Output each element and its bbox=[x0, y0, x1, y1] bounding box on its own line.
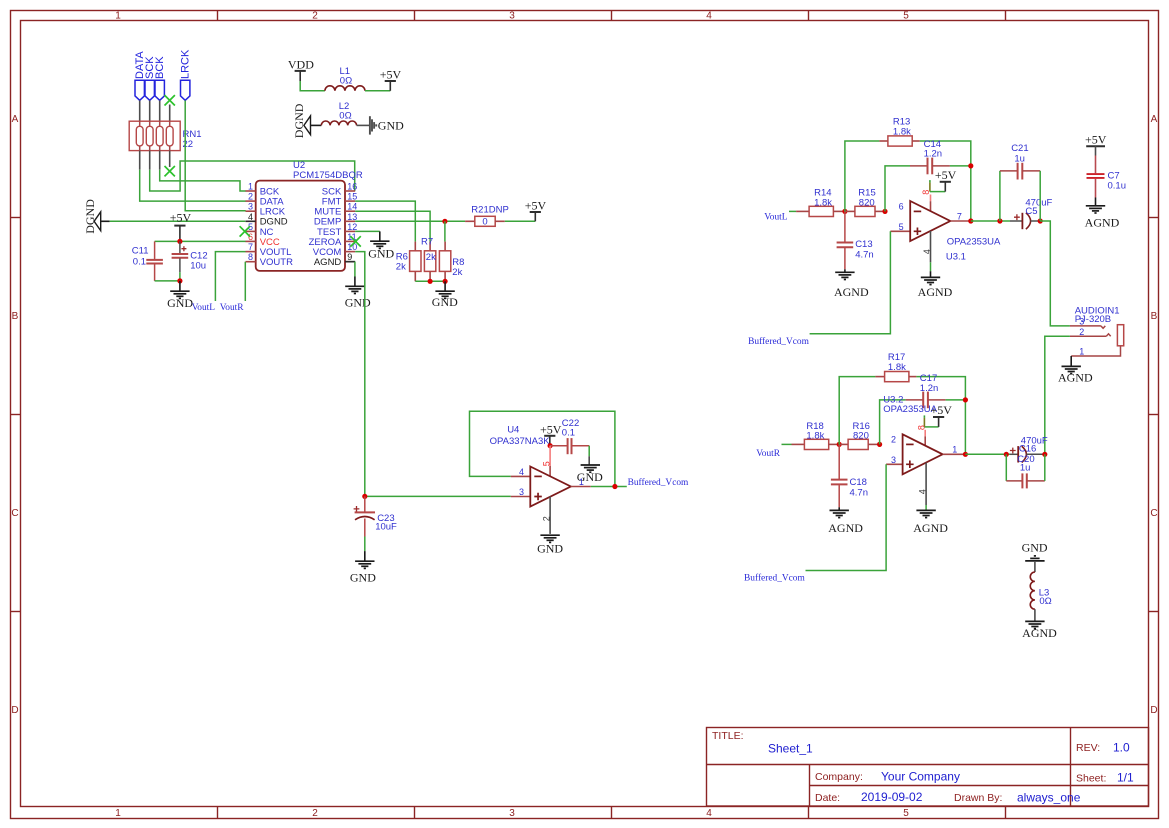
junction C11 C12 gnd bbox=[177, 278, 182, 283]
U3.2 output stub pin1 bbox=[943, 453, 966, 455]
junction R8 bottom bbox=[443, 279, 448, 284]
svg-text:1: 1 bbox=[248, 182, 253, 192]
wire VoutR to R18 bbox=[782, 443, 792, 445]
ground GND below C23 bbox=[350, 551, 376, 584]
svg-text:2: 2 bbox=[312, 11, 318, 22]
ground AGND L3 bbox=[1022, 609, 1057, 640]
svg-text:+5V: +5V bbox=[935, 168, 957, 182]
svg-text:always_one: always_one bbox=[1017, 791, 1081, 805]
wire output to C16 bbox=[965, 453, 1010, 455]
svg-text:VoutR: VoutR bbox=[220, 303, 245, 313]
svg-text:OPA2353UA: OPA2353UA bbox=[947, 236, 1001, 247]
svg-text:2k: 2k bbox=[452, 267, 462, 278]
svg-text:+5V: +5V bbox=[930, 403, 952, 417]
svg-text:22: 22 bbox=[183, 139, 194, 150]
svg-text:R21DNP: R21DNP bbox=[471, 205, 509, 216]
capacitor C21 bbox=[1000, 143, 1040, 221]
junction U4 pin5 node bbox=[548, 443, 553, 448]
wire C11 bottom to gnd node bbox=[155, 280, 180, 282]
svg-text:0: 0 bbox=[482, 217, 487, 228]
junction output node U3.2 bbox=[963, 452, 968, 457]
ground AGND AUDIOIN1 pin1 bbox=[1058, 356, 1093, 385]
title block texts bbox=[712, 730, 1134, 805]
U2 left pin stubs bbox=[246, 191, 256, 262]
resistor R17 bbox=[875, 352, 916, 382]
svg-text:0.1: 0.1 bbox=[562, 427, 575, 438]
capacitor C22 bbox=[550, 418, 589, 454]
svg-text:2k: 2k bbox=[396, 262, 406, 273]
svg-text:3: 3 bbox=[519, 487, 524, 497]
wire VoutL to R14 bbox=[789, 210, 796, 212]
svg-text:C: C bbox=[1150, 508, 1157, 519]
svg-text:AGND: AGND bbox=[834, 285, 869, 299]
svg-text:LRCK: LRCK bbox=[179, 49, 191, 79]
inductor L3 bbox=[1030, 572, 1052, 609]
frame column labels bottom bbox=[115, 808, 909, 819]
wire RN1 r4 bottom stub bbox=[169, 151, 171, 167]
no-connect X U2 pin5 bbox=[240, 226, 250, 236]
svg-text:1.8k: 1.8k bbox=[888, 362, 906, 373]
ground GND U4 pin2 bbox=[537, 535, 563, 555]
junction VCC node bbox=[177, 239, 182, 244]
junction DEMP node bbox=[442, 219, 447, 224]
svg-text:12: 12 bbox=[347, 222, 357, 232]
svg-text:7: 7 bbox=[957, 211, 962, 221]
svg-text:Sheet_1: Sheet_1 bbox=[768, 742, 813, 756]
ground GND C22 bbox=[577, 456, 603, 484]
svg-text:4.7n: 4.7n bbox=[855, 249, 874, 260]
wire U2 pin13 DEMP to R21 bbox=[355, 220, 465, 222]
op-amp U3.2 triangle bbox=[903, 434, 943, 474]
power port VDD bbox=[288, 58, 314, 82]
junction C14 right bbox=[968, 163, 973, 168]
svg-text:1: 1 bbox=[579, 477, 584, 487]
resistor R8 bbox=[439, 242, 464, 282]
svg-text:2: 2 bbox=[1079, 327, 1084, 337]
wire R13 right to output node bbox=[920, 141, 971, 221]
svg-text:9: 9 bbox=[347, 252, 352, 262]
svg-text:0.1: 0.1 bbox=[133, 256, 146, 267]
svg-text:AGND: AGND bbox=[828, 521, 863, 535]
ground AGND U3.1 pin4 bbox=[918, 271, 953, 299]
U4 pin2 stub down bbox=[549, 496, 551, 534]
junction R14 R15 C13 bbox=[842, 209, 847, 214]
svg-text:VoutL: VoutL bbox=[192, 303, 216, 313]
svg-text:1: 1 bbox=[1079, 346, 1084, 356]
svg-text:2: 2 bbox=[312, 808, 318, 819]
svg-text:3: 3 bbox=[509, 808, 515, 819]
svg-text:REV:: REV: bbox=[1076, 742, 1100, 754]
svg-text:2k: 2k bbox=[426, 252, 436, 263]
svg-text:GND: GND bbox=[1022, 541, 1048, 555]
svg-text:3: 3 bbox=[509, 11, 515, 22]
svg-text:0Ω: 0Ω bbox=[339, 111, 351, 122]
svg-text:B: B bbox=[1151, 311, 1158, 322]
wire U2 pin12 TEST to gnd bbox=[355, 230, 380, 232]
capacitor C18 bbox=[831, 444, 868, 507]
svg-text:1: 1 bbox=[115, 808, 121, 819]
svg-text:GND: GND bbox=[378, 119, 404, 133]
svg-text:1u: 1u bbox=[1020, 463, 1031, 474]
svg-text:BCK: BCK bbox=[154, 56, 166, 79]
svg-text:0Ω: 0Ω bbox=[340, 76, 352, 87]
resistor R18 bbox=[792, 421, 840, 450]
ground GND below R8 bbox=[432, 281, 458, 309]
junction Vcom C23 node bbox=[362, 494, 367, 499]
capacitor C16 470uF polarized bbox=[1010, 435, 1048, 462]
wire R6 R7 R8 bottoms bbox=[415, 280, 445, 282]
svg-text:GND: GND bbox=[537, 541, 563, 555]
capacitor C11 bbox=[132, 241, 163, 281]
capacitor C14 bbox=[885, 139, 971, 212]
ground AGND C13 bbox=[834, 269, 869, 299]
U4 pin5 stub bbox=[549, 446, 551, 477]
resistor network RN1 bbox=[129, 121, 201, 150]
svg-text:OPA337NA3K: OPA337NA3K bbox=[490, 436, 551, 447]
resistor R15 bbox=[845, 188, 885, 217]
svg-text:8: 8 bbox=[248, 252, 253, 262]
wire RN1 r2 bottom to pin16 loop bbox=[150, 151, 355, 191]
capacitor C7 bbox=[1087, 156, 1127, 198]
title block bbox=[707, 728, 1149, 807]
junction R16 C17 pin2 bbox=[877, 442, 882, 447]
power port DGND (L2) bbox=[292, 103, 321, 138]
svg-text:C13: C13 bbox=[855, 239, 872, 250]
wire RN1 r1 bottom bbox=[140, 151, 246, 202]
svg-text:7: 7 bbox=[248, 242, 253, 252]
wire R17 feedback left bbox=[839, 377, 875, 445]
svg-text:+5V: +5V bbox=[525, 199, 547, 213]
junction C16 right bbox=[1042, 452, 1047, 457]
svg-text:1.8k: 1.8k bbox=[814, 197, 832, 208]
svg-text:+5V: +5V bbox=[540, 422, 562, 436]
svg-text:U3.1: U3.1 bbox=[946, 252, 966, 263]
power port +5V (U3.1) bbox=[935, 168, 957, 192]
U2 pin numbers left bbox=[248, 182, 253, 263]
power port +5V (L1) bbox=[380, 67, 402, 91]
U3.1 pin4 stub down bbox=[922, 231, 932, 271]
svg-text:VOUTR: VOUTR bbox=[260, 257, 293, 268]
capacitor C20 bbox=[1006, 454, 1045, 489]
wire L1 to +5V bbox=[365, 90, 390, 92]
svg-text:AGND: AGND bbox=[1058, 371, 1093, 385]
svg-text:2: 2 bbox=[891, 435, 896, 445]
svg-text:5: 5 bbox=[542, 461, 552, 466]
svg-text:5: 5 bbox=[903, 11, 909, 22]
U3.1 output stub pin7 bbox=[950, 220, 971, 222]
wire +5V rail to U2 VCC bbox=[155, 240, 246, 242]
svg-text:1u: 1u bbox=[1014, 153, 1025, 164]
svg-text:4: 4 bbox=[706, 11, 712, 22]
svg-text:Buffered_Vcom: Buffered_Vcom bbox=[744, 573, 805, 584]
wire U3.2 pin3 to Buffered_Vcom bbox=[806, 464, 887, 570]
svg-text:D: D bbox=[11, 705, 18, 716]
resistor R6 bbox=[396, 242, 421, 282]
ground AGND U3.2 pin4 bbox=[913, 510, 948, 535]
wire U2 pin15 FMT to R6 bbox=[355, 201, 415, 242]
svg-text:C5: C5 bbox=[1025, 206, 1037, 217]
net flag LRCK bbox=[179, 49, 191, 100]
U2 pin numbers right bbox=[347, 182, 357, 263]
U3.2 pin3 stub bbox=[886, 463, 903, 465]
wire R21 to +5V bbox=[505, 220, 536, 222]
svg-text:1.2n: 1.2n bbox=[924, 149, 943, 160]
svg-text:4: 4 bbox=[922, 249, 932, 254]
svg-text:1.8k: 1.8k bbox=[893, 126, 911, 137]
frame row labels left bbox=[11, 114, 18, 716]
wire R17 right to output node bbox=[916, 377, 965, 455]
svg-text:AGND: AGND bbox=[314, 257, 342, 268]
svg-text:0.1u: 0.1u bbox=[1108, 180, 1127, 191]
svg-text:820: 820 bbox=[853, 430, 869, 441]
svg-text:GND: GND bbox=[345, 295, 371, 309]
svg-text:Your Company: Your Company bbox=[881, 770, 960, 784]
no-connect X U2 pin11 bbox=[350, 236, 360, 246]
svg-text:Date:: Date: bbox=[815, 792, 840, 804]
svg-text:5: 5 bbox=[899, 222, 904, 232]
wire U3.1 pin5 to Buffered_Vcom bbox=[810, 231, 891, 333]
svg-text:2: 2 bbox=[542, 516, 552, 521]
svg-text:R7: R7 bbox=[421, 236, 433, 247]
svg-text:A: A bbox=[12, 114, 19, 125]
svg-text:16: 16 bbox=[347, 182, 357, 192]
resistor R14 bbox=[796, 188, 845, 217]
wire U2 pin7 VOUTL down bbox=[215, 252, 245, 301]
wire C22 to gnd bbox=[588, 446, 590, 457]
wire U2 pin10 VCOM to U4 pin3 bbox=[355, 252, 511, 497]
svg-text:U4: U4 bbox=[507, 424, 519, 435]
svg-text:4: 4 bbox=[248, 212, 253, 222]
svg-text:3: 3 bbox=[248, 202, 253, 212]
wire flag BCK to RN1 bbox=[159, 101, 161, 122]
inductor L1 bbox=[325, 66, 365, 91]
junction output node bbox=[968, 218, 973, 223]
svg-text:15: 15 bbox=[347, 192, 357, 202]
svg-text:6: 6 bbox=[899, 202, 904, 212]
no-connect X RN1 pin bottom bbox=[165, 166, 175, 176]
wire DEMP node down to R8 bbox=[444, 221, 446, 241]
wire U4 output to Buffered_Vcom bbox=[591, 486, 627, 488]
wire R13 feedback left bbox=[845, 141, 880, 211]
svg-text:AGND: AGND bbox=[1022, 626, 1057, 640]
wire flag DATA to RN1 bbox=[139, 101, 141, 122]
svg-text:Buffered_Vcom: Buffered_Vcom bbox=[748, 336, 809, 347]
wire RN1 pin4 top stub bbox=[169, 105, 171, 122]
power port DGND (U2 pin4) bbox=[83, 199, 110, 234]
junction R15 C14 pin6 bbox=[882, 209, 887, 214]
IC U2 PCM1754DBQR bbox=[256, 160, 363, 271]
svg-text:1/1: 1/1 bbox=[1117, 771, 1134, 785]
svg-text:Buffered_Vcom: Buffered_Vcom bbox=[628, 477, 689, 488]
resistor R16 bbox=[839, 421, 879, 450]
svg-text:4: 4 bbox=[519, 467, 524, 477]
wire RN1 r3 bottom to pin1 bbox=[160, 151, 246, 191]
U3.1 labels bbox=[946, 236, 1001, 262]
junction C21 left bbox=[997, 218, 1002, 223]
power port +5V (U3.2) bbox=[930, 403, 952, 427]
svg-text:4: 4 bbox=[706, 808, 712, 819]
svg-text:8: 8 bbox=[916, 425, 926, 430]
wire VDD to L1 bbox=[300, 81, 325, 91]
junction C17 right bbox=[963, 397, 968, 402]
wire C12 bottom bbox=[179, 272, 181, 281]
svg-text:VDD: VDD bbox=[288, 58, 314, 72]
no-connect X RN1 pin top bbox=[165, 95, 175, 105]
svg-text:10u: 10u bbox=[190, 261, 206, 272]
power port GND (L2) sideways ground bbox=[357, 116, 405, 134]
svg-text:4: 4 bbox=[918, 489, 928, 494]
svg-text:D: D bbox=[1150, 705, 1157, 716]
wire U2 pin9 AGND to gnd bbox=[345, 262, 355, 277]
svg-text:3: 3 bbox=[891, 455, 896, 465]
svg-text:+5V: +5V bbox=[170, 211, 192, 225]
svg-text:1.0: 1.0 bbox=[1113, 741, 1130, 755]
svg-text:2019-09-02: 2019-09-02 bbox=[861, 790, 923, 804]
wire DGND to U2 pin4 bbox=[110, 220, 246, 222]
svg-text:C: C bbox=[11, 508, 18, 519]
junction U4 output feedback bbox=[612, 484, 617, 489]
wire AUDIOIN pin2 down to lower stage bbox=[1045, 336, 1070, 454]
svg-text:GND: GND bbox=[350, 571, 376, 585]
frame row labels right bbox=[1150, 114, 1157, 716]
U3.2 labels bbox=[883, 395, 937, 415]
capacitor C5 470uF polarized bbox=[1010, 198, 1053, 230]
svg-text:B: B bbox=[12, 311, 19, 322]
resistor R21 bbox=[465, 205, 509, 228]
U2 pin names right bbox=[309, 186, 342, 268]
wire C5 node to AUDIOIN pin3 bbox=[1040, 221, 1070, 326]
ground AGND C7 bbox=[1085, 198, 1120, 230]
svg-text:VoutR: VoutR bbox=[756, 449, 781, 459]
resistor R13 bbox=[879, 117, 919, 147]
junction C20 left bbox=[1004, 452, 1009, 457]
capacitor C13 bbox=[837, 211, 874, 269]
svg-text:+5V: +5V bbox=[380, 67, 402, 81]
power port +5V (VCC) bbox=[170, 211, 192, 242]
U3.1 pin8 power stub bbox=[921, 180, 945, 212]
U2 pin names left bbox=[260, 186, 293, 268]
svg-text:4.7n: 4.7n bbox=[850, 487, 869, 498]
svg-text:8: 8 bbox=[921, 190, 931, 195]
svg-text:AGND: AGND bbox=[918, 285, 953, 299]
U4 pin3 stub bbox=[511, 496, 531, 498]
svg-text:Company:: Company: bbox=[815, 771, 863, 783]
ground GND pin12 bbox=[368, 231, 394, 260]
svg-text:PCM1754DBQR: PCM1754DBQR bbox=[293, 170, 363, 181]
junction C5 right bbox=[1038, 218, 1043, 223]
U3.2 pin4 stub down bbox=[918, 463, 928, 511]
junction R18 R16 C18 bbox=[837, 442, 842, 447]
svg-text:GND: GND bbox=[432, 295, 458, 309]
inductor L2 bbox=[321, 101, 356, 125]
svg-text:TITLE:: TITLE: bbox=[712, 730, 744, 742]
svg-text:10uF: 10uF bbox=[375, 521, 397, 532]
op-amp U4 labels bbox=[490, 424, 551, 447]
svg-text:+5V: +5V bbox=[1085, 133, 1107, 147]
ground GND below C12 bbox=[167, 281, 193, 310]
svg-text:1: 1 bbox=[952, 445, 957, 455]
svg-text:0Ω: 0Ω bbox=[1039, 596, 1051, 607]
capacitor C12 polarized bbox=[172, 241, 208, 272]
power port +5V (R21) bbox=[525, 199, 547, 222]
svg-text:1: 1 bbox=[115, 11, 121, 22]
svg-text:AGND: AGND bbox=[1085, 215, 1120, 229]
svg-text:820: 820 bbox=[859, 197, 875, 208]
wire U2 pin14 MUTE to R7 bbox=[355, 211, 430, 241]
svg-text:2: 2 bbox=[248, 192, 253, 202]
wire U2 pin8 VOUTR down bbox=[244, 262, 246, 301]
junction R7 bottom bbox=[428, 279, 433, 284]
svg-text:Drawn By:: Drawn By: bbox=[954, 792, 1002, 804]
wire C23 bottom bbox=[364, 537, 366, 552]
svg-text:C11: C11 bbox=[132, 245, 149, 256]
power port +5V (U4) bbox=[540, 422, 562, 445]
svg-text:14: 14 bbox=[347, 202, 357, 212]
U4 output stub pin1 bbox=[571, 486, 591, 488]
capacitor C17 bbox=[880, 373, 966, 444]
op-amp U4 feedback wire bbox=[470, 411, 615, 486]
op-amp U3.1 triangle bbox=[910, 201, 950, 241]
wire LRCK to pin3 bbox=[185, 101, 246, 211]
svg-text:3: 3 bbox=[1079, 317, 1084, 327]
net flag SCK bbox=[144, 56, 156, 101]
power port +5V (C7) bbox=[1085, 133, 1107, 156]
capacitor C23 polarized bbox=[354, 496, 397, 536]
ground GND pin9 bbox=[345, 277, 371, 310]
svg-text:5: 5 bbox=[903, 808, 909, 819]
svg-text:6: 6 bbox=[248, 232, 253, 242]
svg-text:GND: GND bbox=[368, 247, 394, 261]
U2 right pin stubs bbox=[345, 191, 355, 262]
svg-text:DGND: DGND bbox=[292, 103, 306, 138]
svg-text:GND: GND bbox=[167, 296, 193, 310]
svg-text:DGND: DGND bbox=[83, 199, 97, 234]
svg-text:A: A bbox=[1151, 114, 1158, 125]
svg-text:13: 13 bbox=[347, 212, 357, 222]
net flag DATA bbox=[134, 51, 146, 101]
U4 pin4 stub bbox=[511, 475, 531, 477]
svg-text:1.2n: 1.2n bbox=[920, 383, 939, 394]
frame column labels top bbox=[115, 11, 909, 22]
svg-text:AGND: AGND bbox=[913, 521, 948, 535]
wire flag SCK to RN1 bbox=[149, 101, 151, 122]
svg-text:VoutL: VoutL bbox=[764, 212, 788, 222]
ground AGND C18 bbox=[828, 507, 863, 535]
U3.2 pin8 power stub bbox=[916, 415, 938, 447]
power port GND (L3) inverted ground bbox=[1022, 541, 1048, 573]
net flag BCK bbox=[154, 56, 166, 101]
wire output to C5 bbox=[971, 220, 1010, 222]
svg-text:1.8k: 1.8k bbox=[806, 430, 824, 441]
connector AUDIOIN1 PJ-320B bbox=[1070, 306, 1124, 357]
op-amp U4 triangle bbox=[530, 467, 571, 507]
resistor R7 bbox=[421, 236, 436, 281]
svg-text:Sheet:: Sheet: bbox=[1076, 773, 1106, 785]
U3.1 pin5 stub bbox=[890, 230, 910, 232]
